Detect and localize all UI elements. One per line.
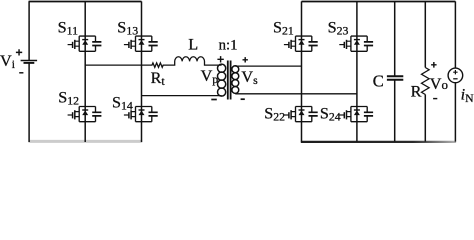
svg-text:Vo: Vo <box>430 75 448 93</box>
svg-text:R: R <box>411 82 422 100</box>
svg-text:n:1: n:1 <box>219 38 238 54</box>
svg-text:C: C <box>373 72 384 91</box>
svg-text:L: L <box>188 36 198 54</box>
